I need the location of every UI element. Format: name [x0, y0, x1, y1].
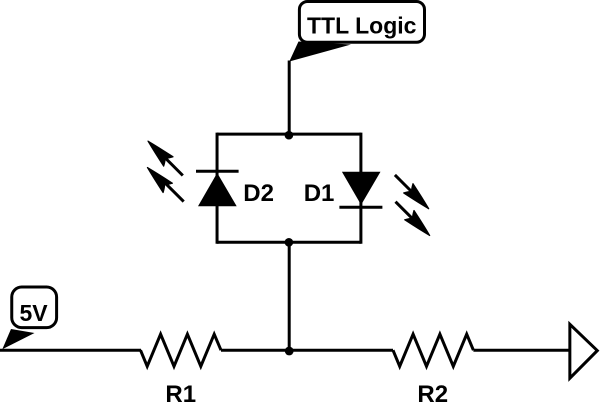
LED D1 light arrow 1 shaft [395, 175, 414, 194]
LED D2 light arrow 1 head [143, 136, 173, 166]
output buffer triangle [570, 324, 597, 378]
wire: left rail from 5V flag to R1 [0, 349, 141, 352]
svg-text:R1: R1 [165, 381, 196, 402]
net flag 5V tail [2, 329, 34, 349]
resistor R2 [393, 334, 473, 366]
LED D1 cathode bar [339, 206, 382, 209]
wire: center node to R2 [289, 349, 393, 352]
wire: vertical from TTL flag tail to LED loop top [288, 61, 291, 137]
LED D2 triangle [198, 173, 237, 206]
svg-text:D2: D2 [243, 180, 274, 207]
wire: loop bottom to center node [288, 242, 291, 350]
svg-text:R2: R2 [417, 381, 448, 402]
net flag 5V box [12, 287, 57, 328]
LED D2 light arrow 1 shaft [164, 157, 183, 176]
LED D1 light arrow 2 shaft [396, 202, 415, 221]
wire: LED loop right side [359, 133, 362, 244]
net flag TTL Logic box [299, 2, 424, 43]
LED D1 light arrow 2 head [405, 210, 435, 240]
junction dot: loop top node [285, 131, 294, 140]
resistor R1 [141, 334, 222, 366]
LED D2 light arrow 2 shaft [163, 181, 183, 201]
wire: R2 to output buffer [473, 349, 570, 352]
LED D2 light arrow 2 head [143, 163, 173, 193]
wire: LED loop left side [216, 133, 219, 244]
svg-text:TTL Logic: TTL Logic [307, 12, 417, 38]
wire: LED loop rectangle top [217, 133, 361, 136]
LED D1 light arrow 1 head [404, 184, 434, 214]
LED D2 cathode bar [196, 170, 239, 173]
junction dot: center node on rail [285, 347, 294, 356]
net flag TTL Logic tail [289, 42, 351, 62]
LED D1 triangle [342, 172, 381, 205]
junction dot: loop bottom node [285, 238, 294, 247]
svg-text:5V: 5V [20, 300, 49, 326]
svg-text:D1: D1 [304, 180, 335, 207]
wire: R1 to center node [221, 349, 290, 352]
wire: LED loop rectangle bottom [217, 241, 361, 244]
